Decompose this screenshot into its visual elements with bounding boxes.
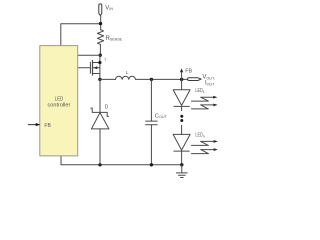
- wire bottom rail: [61, 156, 182, 165]
- node VIN junction: [99, 22, 102, 25]
- LED1 light arrows: [192, 96, 218, 109]
- wire: [100, 78, 116, 80]
- node ground junction: [180, 163, 183, 166]
- node diode rail junction: [98, 163, 101, 166]
- FB input arrow: [28, 123, 40, 126]
- node sense junction: [99, 54, 102, 57]
- wire: [99, 45, 101, 56]
- terminal VIN: [99, 4, 102, 16]
- inductor L: [116, 76, 136, 79]
- svg-text:LED: LED: [55, 96, 64, 102]
- wire: [136, 78, 188, 80]
- svg-text:T: T: [104, 58, 107, 62]
- terminal VOUT: [188, 78, 202, 81]
- LEDn light arrows: [192, 140, 218, 154]
- wire: [100, 16, 102, 30]
- svg-text:COUT: COUT: [155, 113, 168, 119]
- svg-text:controller: controller: [48, 103, 71, 109]
- series ellipsis dots: [180, 115, 183, 118]
- svg-text:VOUT,: VOUT,: [202, 74, 215, 80]
- capacitor COUT: [146, 79, 158, 164]
- LED LEDn: [173, 134, 190, 164]
- diode D schottky: [91, 79, 109, 164]
- node COUT junction: [150, 78, 153, 81]
- controller block U1: [40, 46, 78, 156]
- svg-text:LEDn: LEDn: [195, 133, 204, 139]
- node FB junction: [180, 78, 183, 81]
- svg-text:IOUT: IOUT: [205, 81, 215, 87]
- resistor RSENSE: [97, 30, 103, 45]
- wire: [78, 54, 100, 56]
- svg-text:L: L: [126, 70, 129, 76]
- ground: [176, 165, 187, 178]
- svg-text:D: D: [105, 105, 109, 111]
- transistor T: [78, 55, 102, 79]
- net flag FB: [180, 68, 183, 79]
- svg-text:RSENSE: RSENSE: [106, 36, 123, 42]
- wire: [181, 125, 183, 134]
- svg-text:LED1: LED1: [195, 88, 204, 94]
- node switch junction: [98, 78, 101, 81]
- LED LED1: [173, 79, 190, 110]
- wire: [61, 24, 101, 46]
- svg-text:FB: FB: [185, 68, 192, 74]
- node cout rail junction: [150, 163, 153, 166]
- svg-text:VIN: VIN: [105, 5, 113, 11]
- svg-text:FB: FB: [44, 123, 51, 129]
